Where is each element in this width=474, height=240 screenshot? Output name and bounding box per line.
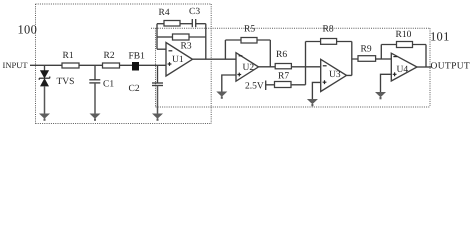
wire: U4 plus input to ground bbox=[381, 74, 392, 92]
pin minus U3 bbox=[323, 65, 327, 67]
op-amp U2 bbox=[236, 53, 259, 81]
ground for C2 bbox=[152, 114, 163, 121]
ground for U3 bbox=[307, 99, 318, 106]
wire: R4 row left bbox=[157, 23, 164, 25]
ground for U2 bbox=[216, 92, 227, 99]
svg-text:C2: C2 bbox=[129, 84, 140, 94]
resistor R10 bbox=[397, 42, 413, 48]
wire: R7 to node A bbox=[291, 84, 306, 86]
wire: R9 to U4 inverting input bbox=[376, 58, 392, 60]
dashed box 100 outline bbox=[36, 4, 212, 124]
wire: U1 inverting input bbox=[157, 48, 166, 50]
svg-text:100: 100 bbox=[18, 23, 38, 37]
wire: R5 feedback left vertical bbox=[224, 40, 226, 59]
wire: R8 feedback right vertical bbox=[351, 42, 353, 76]
op-amp U1 bbox=[166, 43, 193, 77]
wire: U4 output to OUTPUT bbox=[417, 66, 432, 68]
wire: input main rail bbox=[30, 64, 166, 66]
dashed box 101 and inner U1 box outline bbox=[151, 28, 430, 107]
pin minus U4 bbox=[393, 56, 397, 58]
resistor R4 bbox=[164, 21, 180, 27]
pin plus U3 bbox=[323, 80, 327, 84]
capacitor C3 bbox=[192, 19, 195, 27]
pin plus U1 bbox=[168, 62, 172, 66]
wire: R10 feedback right vertical bbox=[425, 45, 427, 68]
svg-text:R2: R2 bbox=[104, 51, 115, 61]
wire: U2 plus input to ground bbox=[222, 75, 236, 92]
resistor R6 bbox=[275, 64, 291, 69]
pin minus U1 bbox=[169, 50, 173, 52]
svg-text:R5: R5 bbox=[244, 25, 255, 35]
node A vertical (R6/R7/R8 junction) bbox=[305, 42, 307, 85]
resistor R1 bbox=[62, 63, 79, 68]
pin plus U2 bbox=[237, 73, 241, 77]
ground for U4 bbox=[375, 92, 386, 99]
svg-text:2.5V: 2.5V bbox=[245, 82, 264, 92]
wire: R5 feedback right vertical bbox=[269, 40, 271, 67]
svg-text:R6: R6 bbox=[276, 50, 287, 60]
TVS diode (bidirectional) bbox=[39, 71, 50, 114]
resistor R3 bbox=[173, 34, 190, 40]
wire: U1 feedback left vertical bbox=[156, 24, 158, 50]
svg-text:R4: R4 bbox=[159, 8, 170, 18]
op-amp U3 bbox=[321, 59, 347, 91]
svg-text:U3: U3 bbox=[329, 70, 341, 80]
wire: C3 to right vertical bbox=[196, 23, 206, 25]
resistor R9 bbox=[358, 56, 376, 62]
wire: U3 plus input to ground bbox=[312, 82, 320, 99]
svg-text:U4: U4 bbox=[397, 65, 409, 75]
wire: TVS drop from rail bbox=[44, 65, 46, 71]
ground for C1 bbox=[90, 114, 101, 121]
wire: R5 row bbox=[225, 39, 270, 41]
svg-text:FB1: FB1 bbox=[129, 52, 146, 62]
op-amp U4 bbox=[391, 53, 417, 81]
ferrite bead FB1 bbox=[133, 63, 139, 71]
wire: R10 row bbox=[381, 44, 426, 46]
wire: 2.5V to R7 bbox=[266, 84, 275, 86]
capacitor C2 bbox=[152, 83, 163, 86]
wire: R4 to C3 bbox=[180, 23, 192, 25]
svg-text:R10: R10 bbox=[396, 30, 412, 40]
ground for TVS bbox=[39, 114, 50, 121]
svg-text:OUTPUT: OUTPUT bbox=[431, 62, 471, 72]
svg-text:R3: R3 bbox=[181, 42, 192, 52]
resistor R7 bbox=[275, 82, 292, 88]
wire: U1 output to U2 inverting input bbox=[193, 58, 237, 60]
wire: C1 drop from rail bbox=[94, 65, 96, 80]
wire: R3 row left bbox=[157, 36, 173, 38]
pin minus U2 bbox=[239, 55, 243, 57]
resistor R2 bbox=[103, 63, 120, 68]
svg-text:C1: C1 bbox=[103, 80, 114, 90]
wire: U2 output row through R6 to U3 inverting input bbox=[259, 66, 321, 68]
svg-text:U2: U2 bbox=[243, 63, 255, 73]
resistor R8 bbox=[321, 39, 337, 45]
svg-text:R8: R8 bbox=[323, 25, 334, 35]
svg-text:C3: C3 bbox=[189, 7, 200, 17]
resistor R5 bbox=[241, 38, 257, 44]
pin plus U4 bbox=[393, 72, 397, 76]
svg-text:101: 101 bbox=[430, 30, 450, 44]
svg-text:INPUT: INPUT bbox=[3, 60, 29, 70]
capacitor C1 bbox=[89, 80, 100, 83]
svg-text:TVS: TVS bbox=[57, 77, 75, 87]
wire: U3 output to R9 row bbox=[347, 59, 359, 75]
svg-text:R7: R7 bbox=[278, 72, 289, 82]
wire: R10 feedback left vertical bbox=[380, 45, 382, 60]
svg-text:R9: R9 bbox=[361, 45, 372, 55]
wire: C2 drop from rail bbox=[157, 65, 159, 83]
wire: R8 row bbox=[306, 41, 352, 43]
svg-text:R1: R1 bbox=[63, 51, 74, 61]
wire: U1 feedback right vertical bbox=[205, 24, 207, 60]
svg-text:U1: U1 bbox=[172, 55, 184, 65]
wire: R3 row right bbox=[189, 36, 206, 38]
